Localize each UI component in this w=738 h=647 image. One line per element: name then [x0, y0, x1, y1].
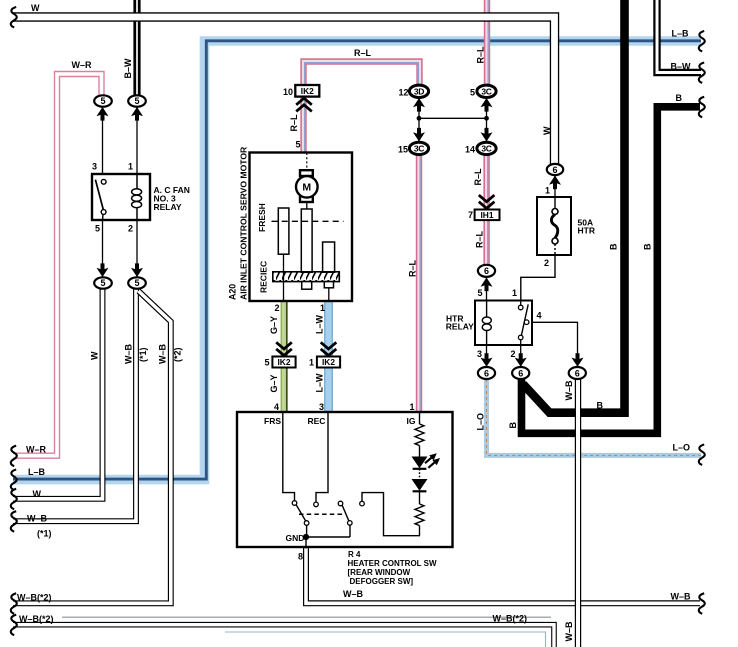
svg-text:A20: A20: [228, 284, 238, 300]
wire W-R (pink outlined): left break -> up -> over to A/C relay connector: [13, 74, 102, 456]
svg-text:6: 6: [575, 368, 580, 378]
svg-text:6: 6: [484, 368, 489, 378]
arrow down into connector 6 (W-B): [572, 353, 584, 367]
svg-text:IK2: IK2: [322, 357, 335, 367]
fuse element bottom circle: [552, 238, 558, 244]
wire thin gray companion above bottom band: [62, 616, 551, 618]
wire R-L from 15-3C down to heater control sw pin 1: [419, 155, 420, 412]
wire connector 6 to HTR relay pin 5: [486, 277, 488, 301]
svg-text:5: 5: [95, 224, 100, 234]
svg-text:5: 5: [470, 88, 475, 98]
wire R-L top horizontal (servo IK2 to 12-3D): [304, 62, 420, 99]
svg-text:W–R: W–R: [26, 445, 47, 455]
svg-text:2: 2: [274, 303, 279, 313]
chevron up into 10-IK2: [296, 98, 312, 111]
wire A/C relay pin2 lead (box to connector 5): [136, 220, 138, 278]
heater sw switch2 blade: [342, 505, 349, 521]
svg-text:W–B: W–B: [124, 344, 134, 365]
svg-text:W–B: W–B: [158, 344, 168, 365]
svg-text:IK2: IK2: [301, 86, 314, 96]
wire A/C relay pin5 lead (box to connector 5): [102, 220, 104, 278]
resistor R (lower): [415, 504, 424, 526]
svg-text:14: 14: [465, 145, 475, 155]
wire W-B(*2) (diagonal from same connector, down, exits left lower): [13, 291, 171, 603]
svg-text:B–W: B–W: [671, 62, 692, 72]
wire W-B(*1) (from A/C relay pin2 connector down, exits left): [13, 289, 136, 521]
servo: left slider track: [278, 208, 289, 254]
svg-text:FRESH: FRESH: [257, 203, 267, 232]
chevron down into 1-IK2: [321, 342, 337, 355]
svg-text:4: 4: [537, 311, 542, 321]
svg-text:W: W: [31, 3, 40, 13]
connector oval 5 (lower left 2): [128, 277, 146, 288]
svg-text:W–B: W–B: [671, 592, 692, 602]
wire B-W top-right (outlined) to right break: [657, 0, 701, 73]
svg-text:3: 3: [477, 349, 482, 359]
svg-text:10: 10: [283, 87, 293, 97]
arrow up into connector 6 (50A HTR): [549, 176, 561, 190]
fuse element top circle: [552, 209, 558, 215]
motor M bottom cap: [300, 196, 313, 202]
connector oval 6 (W above 50A HTR): [547, 164, 563, 175]
break symbol right: B-W: [699, 63, 705, 83]
wire connector 6 to 50A HTR pin 1: [554, 175, 556, 198]
connector oval 6 (W-B): [569, 367, 586, 379]
break symbol left: W-R: [11, 446, 17, 466]
connector oval 15-3C: [409, 142, 428, 154]
wire B #1 thick: top edge down, left at y413, diagonal to HTR relay pin2 connector: [523, 0, 625, 413]
arrow down into connector 6 (B): [515, 353, 527, 367]
HTR relay switch top circle: [518, 305, 523, 310]
svg-text:(*1): (*1): [138, 347, 148, 362]
svg-text:2: 2: [510, 349, 515, 359]
connector oval 14-3C: [477, 142, 496, 154]
connector rect 7-IH1: [475, 210, 500, 221]
svg-text:5: 5: [134, 96, 139, 106]
wire HTR relay pin 3 lead down: [486, 345, 488, 367]
A/C relay switch lower stub: [102, 214, 104, 219]
servo motor box A20: [250, 153, 353, 302]
svg-text:REC: REC: [308, 416, 326, 426]
break symbol left: W: [11, 489, 17, 509]
svg-text:L–O: L–O: [673, 443, 691, 453]
LED D2: [412, 479, 428, 491]
servo: hatched wiper bar: [273, 272, 340, 282]
arrow up into connector 5 (B-W): [131, 107, 143, 121]
svg-text:W–R: W–R: [72, 60, 93, 70]
wire B-W top-left thick vertical into A/C relay connector: [133, 0, 140, 96]
servo: dotted mechanical link from pin 5: [306, 153, 308, 171]
svg-text:R 4: R 4: [348, 550, 361, 559]
svg-text:L–B: L–B: [28, 467, 46, 477]
heater sw switch1 lead to GND: [306, 525, 308, 537]
heater sw REC contact circle: [314, 502, 319, 507]
svg-text:L–W: L–W: [315, 373, 325, 393]
svg-text:5: 5: [264, 358, 269, 368]
arrow down into connector 15-3C: [413, 128, 425, 142]
connector oval 5 (lower left 1): [94, 277, 112, 288]
svg-text:RELAY: RELAY: [446, 321, 474, 331]
wire junction link 5-3C to 14-3C: [486, 98, 488, 143]
break symbol left: L-B: [11, 470, 17, 490]
svg-text:4: 4: [274, 402, 279, 412]
arrow up into connector 12-3D: [413, 98, 425, 112]
wire LED2 to resistor: [419, 491, 421, 504]
wire W (from A/C relay pin5 connector down, exits left): [13, 289, 103, 499]
servo: right track lead to pin 1: [328, 288, 330, 301]
arrow up into connector 5 (W-R): [97, 107, 109, 121]
svg-text:5: 5: [477, 288, 482, 298]
svg-text:R–L: R–L: [473, 168, 483, 186]
heater sw switch3 branch to LED chain: [362, 493, 420, 536]
svg-text:3: 3: [319, 402, 324, 412]
svg-text:IG: IG: [407, 416, 416, 426]
wire W-B(*2) bottom band (left break to x554 then down offpage): [13, 625, 554, 647]
break symbol right: B: [699, 97, 705, 117]
wire resistor to LED1: [419, 446, 421, 457]
switch box R4 HEATER CONTROL SW: [237, 412, 453, 547]
resistor R (upper, IG side): [415, 424, 424, 446]
arrow down into connector 5 (lower left 2): [131, 263, 143, 277]
svg-text:(*1): (*1): [37, 529, 52, 539]
svg-text:W–B(*2): W–B(*2): [19, 614, 54, 624]
svg-text:(*2): (*2): [173, 347, 183, 362]
LED D1 light arrows: [425, 457, 435, 468]
arrow up into connector 6 (HTR relay pin5): [481, 278, 493, 292]
connector oval 6 (R-L above HTR relay): [478, 265, 495, 277]
break symbol right: L-B: [699, 31, 705, 51]
wire GND down to pin 8: [305, 537, 307, 549]
servo: link below motor: [306, 202, 308, 210]
svg-text:8: 8: [298, 552, 303, 562]
svg-text:G–Y: G–Y: [269, 316, 279, 334]
svg-text:5: 5: [295, 140, 300, 150]
motor M top cap: [300, 170, 313, 176]
wire R-L from 14-3C through IH1 to connector 6: [487, 155, 488, 266]
svg-text:6: 6: [552, 165, 557, 175]
svg-text:W–B: W–B: [564, 380, 574, 401]
svg-text:L–O: L–O: [476, 413, 486, 431]
wire resistor to switch3 branch: [419, 526, 421, 536]
fuse lead bottom (dotted): [554, 244, 556, 254]
svg-text:W: W: [542, 126, 552, 135]
svg-text:2: 2: [128, 224, 133, 234]
A/C relay switch pivot circle bottom: [101, 210, 106, 215]
heater sw REC branch: [316, 413, 328, 502]
wire HTR relay pin 2 lead down: [520, 345, 522, 367]
arrow down into connector 5 (lower left 1): [97, 263, 109, 277]
svg-text:1: 1: [309, 358, 314, 368]
svg-text:B–W: B–W: [123, 58, 133, 79]
svg-text:R–L: R–L: [354, 48, 372, 58]
svg-text:AIR INLET CONTROL SERVO MOTOR: AIR INLET CONTROL SERVO MOTOR: [239, 146, 249, 300]
wire LED1 to LED2: [419, 469, 421, 479]
wire W (white outlined): left break along top, down to 50A HTR connector 6: [13, 17, 555, 165]
HTR relay pin4 contact circle: [524, 320, 529, 325]
svg-text:15: 15: [398, 145, 408, 155]
heater sw ganged switch dashed linkage: [299, 513, 342, 515]
HTR relay switch blade: [521, 304, 528, 335]
svg-text:3C: 3C: [481, 144, 491, 154]
motor M circle: [296, 176, 318, 198]
svg-text:W: W: [33, 489, 42, 499]
servo: middle track lower tab: [302, 282, 312, 290]
break symbol left: W-B(*2) lower: [11, 615, 17, 635]
svg-text:1: 1: [545, 186, 550, 196]
A/C relay switch blade: [95, 180, 103, 210]
HTR relay coil: [482, 301, 491, 345]
svg-text:M: M: [302, 182, 311, 194]
wire 50A HTR pin 2 to HTR relay pin 1: [521, 255, 555, 301]
svg-text:3: 3: [92, 162, 97, 172]
svg-text:5: 5: [134, 278, 139, 288]
svg-text:B: B: [508, 422, 518, 429]
svg-text:3C: 3C: [414, 144, 424, 154]
connector oval 12-3D: [409, 85, 428, 97]
wire W-B (from HTR relay pin4 connector straight down to bottom edge): [575, 378, 581, 647]
wire R-L segment from 10-IK2 down to servo pin 5: [304, 96, 305, 153]
svg-text:B: B: [609, 243, 619, 250]
HTR relay pin1 stub: [520, 301, 522, 305]
wire junction link 12-3D to 15-3C: [418, 98, 420, 143]
node junction dot left: [417, 116, 422, 121]
svg-text:3C: 3C: [481, 87, 491, 97]
svg-text:6: 6: [518, 368, 523, 378]
svg-text:G–Y: G–Y: [269, 374, 279, 392]
svg-text:1: 1: [128, 162, 133, 172]
HTR relay switch bottom circle: [518, 335, 523, 340]
svg-text:3D: 3D: [414, 87, 424, 97]
svg-text:W: W: [90, 351, 100, 360]
svg-text:R–L: R–L: [475, 230, 485, 248]
wire B #2 thick: right break, down at x657, left at y433, up into same connector: [522, 107, 701, 434]
wire A/C relay pin3 lead (connector 5 to box): [102, 106, 104, 175]
heater sw switch2 pivot circle: [348, 521, 353, 526]
relay box HTR RELAY: [475, 301, 532, 346]
svg-text:GND: GND: [286, 533, 305, 543]
wire A/C relay pin1 lead (connector 5 to box): [136, 106, 138, 175]
svg-text:B: B: [597, 401, 604, 411]
wire junction crossbar between dots: [419, 117, 487, 119]
break symbol left: W top: [11, 7, 17, 27]
svg-text:R–L: R–L: [476, 46, 486, 64]
relay box A/C FAN NO.3 RELAY: [92, 174, 150, 220]
svg-text:6: 6: [484, 266, 489, 276]
heater sw FRS branch: [283, 413, 295, 501]
svg-text:HEATER CONTROL SW: HEATER CONTROL SW: [348, 559, 437, 568]
servo: right slider track: [323, 242, 335, 272]
svg-text:1: 1: [512, 288, 517, 298]
connector rect 1-IK2: [317, 357, 340, 368]
connector oval 5 (B-W top): [128, 95, 146, 106]
HTR relay pin2 stub: [520, 340, 522, 345]
connector rect 5-IK2: [272, 357, 295, 368]
fuse lead top: [554, 198, 556, 208]
LED D1 (illumination): [412, 457, 428, 469]
wire thin gray companion under bottom band: [225, 632, 546, 647]
svg-text:B: B: [643, 243, 653, 250]
heater sw switch2 contact circle: [338, 501, 343, 506]
node junction dot right: [484, 116, 489, 121]
wire G-Y (servo pin 2 to heater sw pin 4): [281, 301, 287, 412]
wire HTR relay pin 4 right then down to connector 6: [532, 322, 578, 367]
connector rect 10-IK2: [295, 85, 319, 97]
heater sw FRS contact circle: [292, 501, 297, 506]
wire GND bus: [306, 536, 350, 538]
svg-text:2: 2: [544, 258, 549, 268]
svg-text:W–B(*2): W–B(*2): [493, 614, 528, 624]
chevron down into 7-IH1: [479, 195, 495, 208]
heater sw switch3 contact circle: [360, 501, 365, 506]
fuse box 50A HTR: [537, 197, 571, 255]
svg-text:7: 7: [468, 210, 473, 220]
svg-text:L–B: L–B: [672, 29, 690, 39]
wire R-L upper vertical into 5-3C: [487, 0, 488, 87]
connector oval 6 (B): [512, 367, 529, 379]
svg-text:IH1: IH1: [480, 210, 493, 220]
wire L-W (servo pin 1 to heater sw pin 3): [324, 301, 333, 412]
svg-text:1: 1: [409, 402, 414, 412]
heater sw switch1 pivot circle: [304, 521, 309, 526]
svg-text:IK2: IK2: [277, 357, 290, 367]
fuse element S-curve: [551, 215, 557, 239]
svg-text:FRS: FRS: [264, 416, 281, 426]
svg-text:DEFOGGER SW]: DEFOGGER SW]: [350, 577, 414, 586]
connector oval 6 (L-O): [478, 367, 495, 379]
svg-text:HTR: HTR: [578, 226, 595, 236]
svg-text:W–B(*2): W–B(*2): [17, 593, 52, 603]
wire L-B (blue with dark stripe): right break -> left/top corner -> down -> bottom-left exit: [13, 41, 701, 480]
svg-text:[REAR WINDOW: [REAR WINDOW: [348, 568, 411, 577]
svg-text:1: 1: [320, 303, 325, 313]
svg-text:RECIEC: RECIEC: [259, 261, 269, 293]
wire L-O (HTR relay pin 3 connector down and right to break): [487, 379, 702, 455]
heater sw IG lead: [419, 413, 421, 424]
heater sw switch1 blade: [296, 505, 305, 521]
wire W-B (heater sw pin 8 / GND down then right to break): [306, 536, 700, 603]
svg-text:5: 5: [100, 96, 105, 106]
servo: dashed FRESH position line: [272, 220, 344, 222]
connector oval 5 (W-R top): [94, 95, 112, 106]
svg-text:W–B: W–B: [564, 621, 574, 642]
svg-text:L–W: L–W: [315, 314, 325, 334]
break symbol left: W-B(*1): [11, 511, 17, 531]
ground GND junction dot: [303, 534, 309, 540]
svg-text:B: B: [676, 93, 683, 103]
break symbol right: L-O: [699, 445, 705, 465]
A/C relay switch contact circle top: [101, 179, 106, 184]
svg-text:5: 5: [100, 278, 105, 288]
arrow down into connector 6 (L-O): [481, 353, 493, 367]
connector oval 5-3C: [477, 85, 496, 97]
arrow up into connector 5-3C: [481, 98, 493, 112]
break symbol right: W-B: [699, 593, 705, 613]
break symbol left: W-B(*2) upper: [11, 593, 17, 613]
heater sw switch2 lead to GND: [349, 525, 351, 537]
servo: left track lead to pin 2: [283, 254, 285, 301]
A/C relay coil: [132, 175, 142, 220]
svg-text:12: 12: [398, 88, 408, 98]
svg-text:RELAY: RELAY: [154, 202, 182, 212]
chevron down into 5-IK2: [276, 342, 292, 355]
svg-text:W–B: W–B: [343, 589, 364, 599]
svg-text:W–B: W–B: [27, 514, 48, 524]
servo: middle slider track: [301, 209, 312, 272]
servo: right track lower tab: [324, 282, 333, 288]
svg-text:R–L: R–L: [289, 114, 299, 132]
arrow down into connector 14-3C: [481, 128, 493, 142]
svg-text:R–L: R–L: [408, 259, 418, 277]
